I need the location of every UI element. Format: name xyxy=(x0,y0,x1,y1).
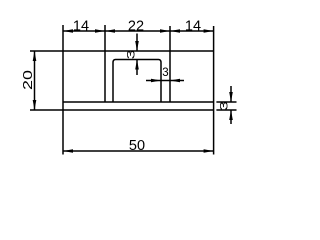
arrow right at (170,31) xyxy=(160,29,170,33)
dim 3 plate ext bottom xyxy=(216,109,236,111)
arrow left at (63,151) xyxy=(63,149,73,153)
arrow left at (170,80.5) xyxy=(170,79,180,83)
svg-text:3: 3 xyxy=(162,67,168,79)
arrow right at (105,31) xyxy=(95,29,105,33)
arrow down at (34.5,110) xyxy=(33,100,37,110)
arrow right at (213.6,151) xyxy=(204,149,214,153)
dim 20 bottom extension xyxy=(30,109,63,111)
dim 50 line xyxy=(63,150,214,152)
dim 3 top shaft upper xyxy=(136,34,138,52)
arrow left at (170,31) xyxy=(170,29,180,33)
dim 3 plate ext top xyxy=(216,101,236,103)
part right edge xyxy=(213,51,215,110)
extension line x=170 above part xyxy=(169,26,171,51)
arrow down at (137,51) xyxy=(135,41,139,51)
arrow left at (63,31) xyxy=(63,29,73,33)
dim 3 wall line xyxy=(146,80,184,82)
dim 20 top extension xyxy=(30,50,63,52)
svg-text:3: 3 xyxy=(126,50,138,60)
dim 3 top shaft lower xyxy=(136,60,138,76)
base plate top edge xyxy=(63,101,214,103)
svg-text:22: 22 xyxy=(128,18,144,34)
svg-text:50: 50 xyxy=(129,138,145,154)
extension line x=63 above part xyxy=(62,25,64,51)
dim 3 plate shaft lower xyxy=(230,110,232,124)
dim 3 plate shaft upper xyxy=(230,86,232,102)
svg-text:14: 14 xyxy=(185,18,201,34)
arrow right at (161,80.5) xyxy=(151,79,161,83)
svg-text:3: 3 xyxy=(219,101,231,111)
svg-text:20: 20 xyxy=(21,70,35,90)
part left edge xyxy=(62,51,64,110)
part top edge xyxy=(63,50,214,52)
top dimension line xyxy=(63,30,214,32)
arrow right at (213.6,31) xyxy=(204,29,214,33)
extension line x=213.6 above part xyxy=(213,26,215,51)
box inner cavity xyxy=(113,60,161,103)
arrow left at (105,31) xyxy=(105,29,115,33)
svg-text:14: 14 xyxy=(73,18,89,34)
dim 50 left extension xyxy=(62,110,64,155)
base plate bottom edge xyxy=(63,109,214,111)
extension line x=105 above part xyxy=(104,25,106,51)
box outer left wall xyxy=(104,51,106,102)
arrow up at (231,110) xyxy=(229,110,233,120)
box outer right wall xyxy=(169,51,171,102)
dim 50 right extension xyxy=(213,110,215,155)
arrow up at (34.5,51) xyxy=(33,51,37,61)
arrow down at (231,102) xyxy=(229,92,233,102)
dim 20 line xyxy=(34,51,36,110)
arrow up at (137,59.5) xyxy=(135,60,139,70)
